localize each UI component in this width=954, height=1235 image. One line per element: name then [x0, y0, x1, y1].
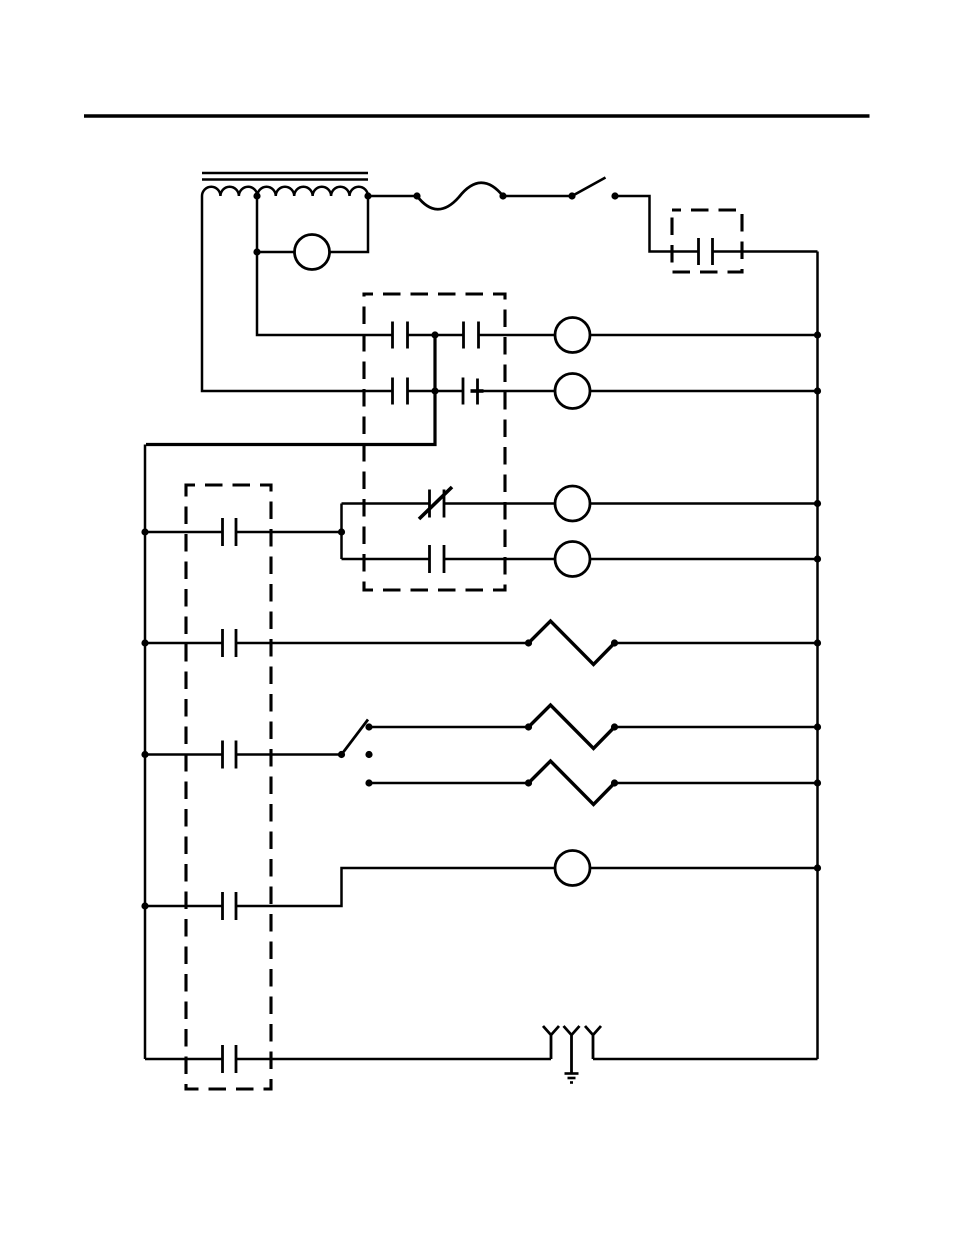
wire: branch bracket: [340, 504, 343, 560]
capacitor C1: [699, 238, 713, 265]
wire L1 to right rail: [590, 334, 818, 337]
wire: upper branch to NC contact: [342, 502, 430, 505]
switch S1 blade: [572, 178, 606, 197]
wire: right rail: [816, 252, 819, 1060]
wire throw1 to heater R2: [369, 726, 529, 729]
wire L3 to right rail: [590, 502, 818, 505]
wire: contact block common down and across to left rail: [146, 335, 435, 445]
node: winding tap: [253, 192, 260, 199]
wire L5 to right rail: [590, 867, 818, 870]
wire L2 to right rail: [590, 390, 818, 393]
wire row A to branch: [236, 531, 342, 534]
selector switch S2 blade: [342, 720, 369, 755]
wire row A: [145, 531, 223, 534]
wire row B to heater: [236, 642, 529, 645]
dashed enclosure around C1: [672, 210, 742, 272]
node on left rail row C: [141, 751, 148, 758]
node: switch throw: [611, 192, 618, 199]
wire: switch to capacitor C1: [615, 196, 699, 252]
wire row D step up to lamp L5: [236, 868, 555, 906]
node on left rail row B: [141, 639, 148, 646]
node: [611, 639, 618, 646]
capacitor C2: [223, 518, 237, 546]
lamp L3: [555, 486, 590, 521]
node: [611, 779, 618, 786]
node on right rail: [814, 500, 821, 507]
node B: [431, 387, 438, 394]
node on left rail row A: [141, 528, 148, 535]
wire row C: [145, 753, 223, 756]
motor M1: [295, 235, 330, 270]
node: [525, 639, 532, 646]
capacitor C6: [223, 1045, 237, 1073]
wire: winding left end down to row 2: [202, 196, 393, 391]
lamp L2: [555, 374, 590, 409]
wire R3 to right rail: [615, 782, 818, 785]
wire bottom row from left rail: [145, 1058, 223, 1061]
fuse F1: [417, 183, 503, 210]
node: selector pole: [338, 751, 345, 758]
node: winding right end: [364, 192, 371, 199]
node on right rail: [814, 639, 821, 646]
node: switch pole: [568, 192, 575, 199]
contact K2a: [393, 378, 408, 405]
header rule: [84, 114, 870, 118]
contact K4: [430, 545, 445, 573]
ground: [565, 1074, 579, 1083]
contact K1a: [393, 322, 408, 349]
wire to lamp L4: [444, 558, 555, 561]
receptacle P1 contact 1: [543, 1026, 559, 1059]
heater R3: [529, 761, 615, 805]
capacitor C4: [223, 741, 237, 769]
wire throw3 to heater R3: [369, 782, 529, 785]
node: throw 3: [365, 779, 372, 786]
node: [611, 723, 618, 730]
node: throw 2: [365, 751, 372, 758]
wire: C1 to right rail: [713, 250, 818, 253]
wire: [408, 334, 464, 337]
transformer T1 core: [202, 173, 368, 180]
wire row B: [145, 642, 223, 645]
node on right rail: [814, 331, 821, 338]
node on right rail: [814, 723, 821, 730]
wire bottom row to receptacle: [236, 1058, 551, 1061]
node A: [431, 331, 438, 338]
node: tap/meter junction: [253, 248, 260, 255]
dashed enclosure: terminal strip: [186, 485, 271, 1089]
receptacle P1 contact 3: [585, 1026, 601, 1059]
heater R1: [529, 621, 615, 665]
heater R2: [529, 705, 615, 749]
lamp L1: [555, 318, 590, 353]
wire: meter left lead: [257, 251, 295, 254]
node: throw 1: [365, 723, 372, 730]
wire: fuse to switch: [503, 195, 572, 198]
lamp L4: [555, 542, 590, 577]
node: [525, 723, 532, 730]
node on right rail: [814, 779, 821, 786]
contact K2b: [463, 378, 484, 405]
dashed enclosure: relay contact block: [364, 294, 505, 590]
node: [499, 192, 506, 199]
wire: meter right lead up to winding end: [330, 196, 369, 252]
node: branch point: [338, 528, 345, 535]
transformer T1 winding: [202, 187, 368, 196]
wire: left rail: [144, 445, 147, 1060]
capacitor C5: [223, 892, 237, 920]
node on right rail: [814, 555, 821, 562]
lamp L5: [555, 851, 590, 886]
node on right rail: [814, 864, 821, 871]
wire L4 to right rail: [590, 558, 818, 561]
wire R1 to right rail: [615, 642, 818, 645]
capacitor C3: [223, 629, 237, 657]
node: [525, 779, 532, 786]
node on right rail: [814, 387, 821, 394]
wire to lamp L1: [479, 334, 556, 337]
wire to lamp L3: [444, 502, 555, 505]
contact K1b: [464, 322, 479, 349]
wire to lamp L2: [478, 390, 556, 393]
wire R2 to right rail: [615, 726, 818, 729]
wire: lower branch to contact: [342, 558, 430, 561]
receptacle P1 contact 2 (grounding): [564, 1026, 580, 1074]
wire row C to selector: [236, 753, 342, 756]
wire: tap down to row 1: [257, 196, 393, 335]
node: [413, 192, 420, 199]
node on left rail row D: [141, 902, 148, 909]
contact K3 (normally closed): [419, 487, 452, 519]
wire: to fuse: [368, 195, 417, 198]
wire: [408, 390, 464, 393]
wire row D: [145, 905, 223, 908]
wire bottom row to right rail: [593, 1058, 818, 1061]
